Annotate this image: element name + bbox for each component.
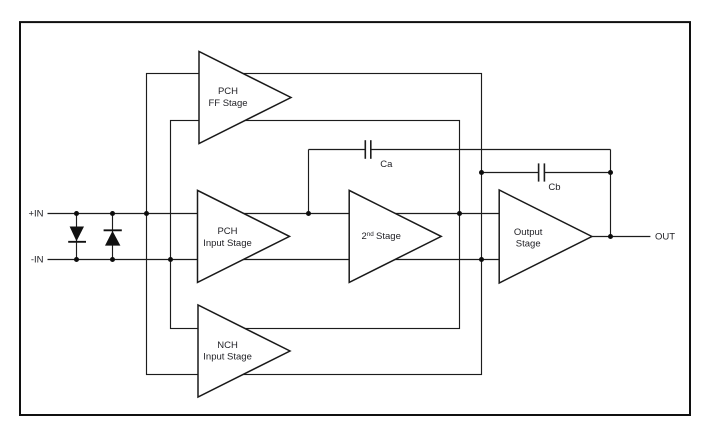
svg-text:NCH: NCH [217, 340, 238, 351]
svg-text:+IN: +IN [28, 208, 43, 219]
svg-text:OUT: OUT [655, 232, 675, 243]
svg-text:Ca: Ca [380, 159, 393, 170]
svg-text:Output: Output [514, 227, 543, 238]
svg-text:Cb: Cb [548, 182, 560, 193]
svg-text:-IN: -IN [31, 255, 44, 266]
svg-text:Input Stage: Input Stage [203, 238, 252, 249]
svg-text:FF Stage: FF Stage [208, 98, 247, 109]
svg-text:Stage: Stage [516, 239, 541, 250]
svg-text:PCH: PCH [217, 226, 237, 237]
svg-text:PCH: PCH [218, 86, 238, 97]
svg-text:Input Stage: Input Stage [203, 352, 252, 363]
